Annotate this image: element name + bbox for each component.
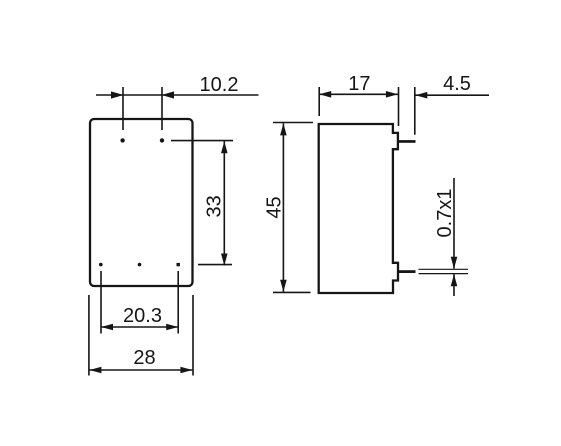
front top pin right (160, 138, 164, 142)
arrowhead 10.2 right (162, 91, 175, 98)
dimension line 0.7x1 lower (453, 274, 455, 296)
extension line 33 top (171, 140, 233, 142)
arrowhead 33 down (221, 254, 228, 266)
dimension line 28 (89, 369, 192, 371)
extension line 28 right (192, 295, 194, 376)
svg-text:4.5: 4.5 (443, 73, 471, 95)
arrowhead 4.5 (415, 92, 427, 99)
extension line 4.5 left (398, 87, 400, 126)
arrowhead 28 left (89, 367, 101, 374)
dimension line 17 (319, 93, 398, 95)
svg-text:28: 28 (133, 347, 155, 369)
arrowhead 33 up (221, 141, 228, 153)
arrowhead 17 right (386, 91, 398, 98)
front view body (90, 119, 193, 286)
svg-text:20.3: 20.3 (123, 305, 162, 327)
extension line 45 top (273, 122, 313, 124)
extension line 20.3 left (100, 271, 102, 334)
extension line 10.2 left (122, 87, 124, 130)
side view body outline (319, 124, 398, 293)
dimension line 45 (282, 123, 284, 292)
svg-text:45: 45 (263, 196, 285, 218)
side bottom pin (398, 270, 416, 273)
front top pin left (120, 138, 124, 142)
dimension line 10.2 (96, 94, 259, 96)
extension line 10.2 right (161, 87, 163, 130)
svg-text:0.7x1: 0.7x1 (434, 189, 456, 238)
dimension line 4.5 (415, 94, 489, 96)
arrowhead 17 left (319, 91, 331, 98)
front bottom pin right (177, 263, 180, 266)
svg-text:10.2: 10.2 (200, 74, 239, 96)
dimension line 20.3 (101, 326, 178, 328)
extension line 45 bottom (273, 291, 311, 293)
arrowhead 45 up (280, 123, 287, 135)
arrowhead 45 down (280, 280, 287, 292)
extension line 33 bottom (198, 264, 232, 266)
extension line 17 left (318, 87, 320, 116)
pin cross-section line bottom (419, 273, 469, 275)
dimension line 0.7x1 upper (453, 178, 455, 269)
arrowhead 20.3 left (101, 324, 113, 331)
arrowhead 0.7x1 down (451, 257, 458, 269)
svg-text:17: 17 (348, 73, 370, 95)
arrowhead 10.2 left (111, 91, 124, 98)
extension line 20.3 right (177, 271, 179, 334)
arrowhead 20.3 right (166, 324, 178, 331)
pin cross-section line top (419, 268, 469, 270)
extension line 28 left (88, 295, 90, 376)
svg-text:33: 33 (203, 195, 225, 217)
dimension line 33 (223, 141, 225, 265)
front bottom pin left (99, 263, 103, 267)
front bottom pin middle (138, 263, 142, 267)
arrowhead 28 right (180, 367, 192, 374)
arrowhead 0.7x1 up (451, 274, 458, 286)
side top pin (398, 140, 416, 143)
extension line 4.5 right (414, 87, 416, 135)
